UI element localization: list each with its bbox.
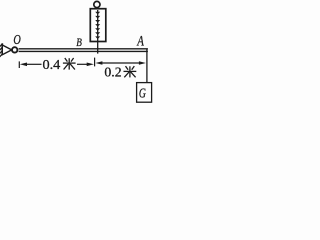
bracket triangle xyxy=(2,45,11,55)
svg-text:O: O xyxy=(13,33,20,48)
svg-text:0.2: 0.2 xyxy=(104,65,121,80)
svg-text:G: G xyxy=(139,87,146,102)
wall line xyxy=(1,43,3,54)
dimension 0.4m left arrow xyxy=(20,63,27,67)
string from A down to weight xyxy=(146,49,148,83)
weight box G xyxy=(137,83,152,103)
dimension 0.2m left arrow xyxy=(95,61,102,65)
dimension tick at B xyxy=(94,58,96,67)
spring scale hook rod xyxy=(97,10,99,54)
dimension 0.4m right arrow xyxy=(77,63,88,65)
dimension 0.2m line xyxy=(102,62,140,64)
glyph mi (meter) for 0.2 xyxy=(124,66,137,77)
svg-text:A: A xyxy=(136,34,143,50)
spring scale body xyxy=(90,9,106,42)
glyph mi (meter) for 0.4 xyxy=(63,58,76,70)
svg-text:0.4: 0.4 xyxy=(43,57,61,72)
svg-text:B: B xyxy=(76,35,82,49)
lever top line xyxy=(19,48,148,50)
pivot circle O xyxy=(12,47,17,52)
wall hatching xyxy=(0,44,2,57)
dimension tick at O xyxy=(18,61,20,68)
dimension 0.2m right arrow xyxy=(139,61,146,65)
spring scale ring xyxy=(94,1,100,7)
spring coil ticks xyxy=(95,12,100,39)
lever bottom line xyxy=(19,50,148,52)
